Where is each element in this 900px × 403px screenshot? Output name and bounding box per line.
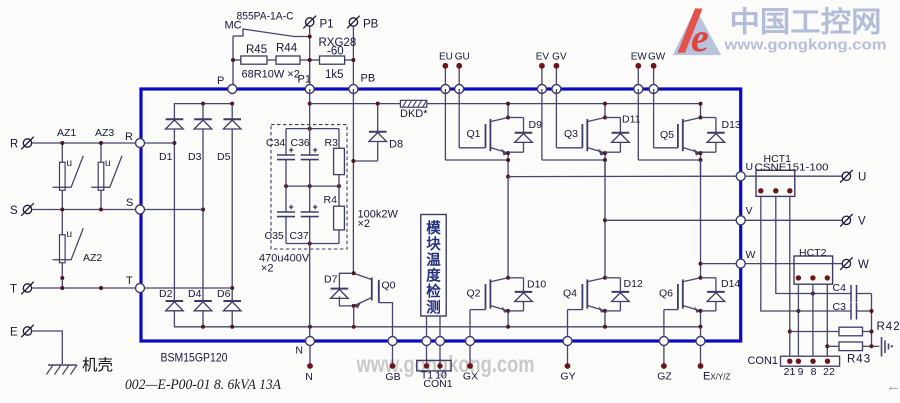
diode D7 (339, 273, 353, 288)
svg-text:Q6: Q6 (659, 288, 673, 300)
svg-text:C35: C35 (265, 230, 284, 242)
svg-text:R42: R42 (877, 321, 900, 333)
svg-text:GB: GB (385, 371, 400, 383)
svg-text:D12: D12 (624, 278, 643, 290)
svg-text:D13: D13 (722, 119, 741, 131)
svg-text:D10: D10 (527, 279, 546, 291)
svg-text:68R10W ×2: 68R10W ×2 (242, 69, 300, 81)
svg-text:C36: C36 (291, 137, 310, 149)
wire DKD to Q1 collector (427, 103, 508, 105)
varistor AZ1 (53, 143, 84, 210)
module temperature sensor box (421, 215, 446, 317)
svg-text:中国工控网: 中国工控网 (730, 7, 882, 39)
current sensor HCT2 (794, 256, 833, 284)
node EV GV on top edge (537, 85, 546, 94)
wire leg1 R phase (173, 129, 175, 301)
transistor Q6 (664, 276, 703, 341)
svg-text:R: R (125, 131, 133, 143)
svg-text:GW: GW (648, 52, 666, 63)
varistor AZ3 (91, 143, 122, 210)
svg-text:GX: GX (463, 371, 478, 383)
svg-text:D5: D5 (217, 151, 231, 163)
capacitor C36 (309, 89, 311, 155)
wire P column (232, 36, 234, 89)
svg-text:+: + (289, 202, 294, 212)
terminal N stub (309, 346, 311, 364)
node EW GW on top edge (634, 85, 643, 94)
terminal GY stub (567, 346, 569, 364)
capacitor C37 (309, 186, 311, 212)
chassis ground (47, 365, 78, 375)
svg-text:CON1: CON1 (423, 378, 452, 390)
svg-text:W: W (746, 249, 756, 261)
diode D4 (194, 301, 212, 311)
svg-text:×2: ×2 (261, 263, 274, 275)
terminal E (21, 325, 34, 338)
svg-text:D7: D7 (324, 274, 338, 286)
diode D3 (194, 119, 212, 129)
wire U bus (508, 175, 741, 177)
capacitor bank dashed box (271, 125, 347, 249)
wire U phase leg (507, 177, 509, 278)
wire PB column inside (352, 89, 354, 273)
svg-text:P1: P1 (298, 74, 311, 86)
wire leg2 S phase (202, 104, 204, 120)
svg-text:HCT2: HCT2 (799, 247, 827, 259)
diode D9 (508, 118, 532, 153)
terminal GX stub (469, 346, 471, 364)
node GZ (659, 337, 668, 346)
svg-text:9: 9 (798, 366, 804, 378)
wire EX emitter to bottom edge (700, 327, 702, 341)
wire T (32, 287, 140, 289)
terminal PB top (347, 16, 360, 29)
transistor Q2 (470, 276, 510, 341)
capacitor C35 (285, 186, 287, 212)
svg-text:Q5: Q5 (660, 129, 674, 141)
svg-text:T: T (10, 284, 17, 296)
svg-text:机壳: 机壳 (82, 356, 113, 374)
terminal GB stub (392, 346, 394, 364)
svg-text:D6: D6 (217, 288, 231, 300)
connector T1 T10 (426, 346, 428, 367)
svg-text:GV: GV (552, 52, 567, 63)
svg-text:D8: D8 (389, 139, 403, 151)
diode D11 (605, 118, 629, 153)
svg-text:V: V (858, 216, 866, 228)
wire caps mid bus (286, 185, 339, 187)
wire W output (741, 263, 843, 265)
transistor Q1 (445, 89, 510, 177)
svg-text:C3: C3 (833, 301, 847, 313)
wire R to leg1 (140, 142, 174, 144)
svg-text:U: U (746, 161, 754, 173)
svg-text:R: R (10, 139, 18, 151)
wire E to chassis (32, 331, 62, 364)
svg-text:温: 温 (426, 252, 441, 269)
logo red slash i (678, 9, 703, 53)
svg-text:N: N (305, 371, 313, 383)
diode D8 (376, 102, 380, 106)
svg-text:AZ1: AZ1 (57, 127, 76, 139)
transistor Q0 brake chopper (352, 271, 379, 309)
transistor Q3 (542, 89, 607, 177)
svg-text:D9: D9 (529, 119, 543, 131)
svg-text:测: 测 (426, 299, 441, 317)
wire N drop from caps (309, 244, 311, 342)
wire collector bus right (508, 103, 700, 105)
terminal V (840, 214, 853, 227)
wire leg3 T phase (231, 104, 233, 120)
svg-text:模: 模 (426, 219, 441, 237)
svg-text:EW: EW (631, 52, 648, 63)
wire V phase leg (604, 160, 606, 278)
wire HCT1 pin2 to C4 (776, 196, 851, 293)
node T1 (422, 337, 431, 346)
svg-text:C4: C4 (833, 282, 847, 294)
svg-text:www.gongkong.com: www.gongkong.com (723, 37, 886, 54)
wire HCT2 pin3 to CON1 pin22 (826, 284, 828, 356)
rectifier top bus (174, 104, 232, 120)
svg-text:C34: C34 (266, 137, 285, 149)
svg-text:AZ2: AZ2 (83, 252, 102, 264)
svg-text:D14: D14 (721, 278, 740, 290)
wire V output (741, 219, 843, 221)
svg-text:8: 8 (811, 366, 817, 378)
svg-text:MC: MC (225, 20, 242, 32)
wire HCT2 pin1 to CON1 pin9 (797, 284, 799, 356)
terminal T (21, 282, 34, 295)
svg-text:PB: PB (363, 19, 379, 31)
svg-text:C37: C37 (290, 230, 309, 242)
current sensor HCT1 (756, 170, 795, 196)
svg-text:e: e (691, 15, 709, 60)
terminal U (840, 170, 853, 183)
diode D12 (605, 278, 629, 311)
junction dots soft start (308, 35, 312, 39)
svg-text:21: 21 (784, 366, 796, 378)
transistor Q5 (638, 89, 702, 177)
wire R (32, 142, 140, 144)
wire PB column (352, 27, 354, 90)
wire sensor lead T1 (426, 316, 428, 341)
ground (872, 345, 880, 347)
resistor R43 (827, 345, 839, 347)
wire S (32, 209, 140, 211)
svg-text:+: + (313, 145, 318, 155)
wire W bus (701, 263, 741, 265)
wire HCT2 pin2 to CON1 pin8 (812, 284, 814, 356)
varistor AZ2 (53, 210, 84, 289)
svg-text:Q2: Q2 (467, 288, 481, 300)
svg-text:AZ3: AZ3 (95, 127, 114, 139)
wire P1 column (309, 27, 311, 90)
svg-text:002—E-P00-01 8. 6kVA 13A: 002—E-P00-01 8. 6kVA 13A (125, 377, 282, 393)
svg-text:Q4: Q4 (563, 288, 577, 300)
svg-text:E: E (10, 327, 18, 339)
diode D13 (701, 118, 725, 153)
svg-text:块: 块 (426, 236, 441, 253)
svg-text:R44: R44 (276, 43, 298, 55)
svg-text:×2: ×2 (358, 218, 371, 230)
svg-text:CSNE151-100: CSNE151-100 (755, 162, 829, 174)
wire HCT1 pin1 to C3 (761, 196, 851, 311)
connector CON1 right (781, 356, 840, 366)
svg-text:Q3: Q3 (564, 128, 578, 140)
wire V bus (605, 219, 741, 221)
svg-text:R45: R45 (246, 44, 267, 56)
svg-text:←: ← (886, 378, 900, 395)
wire T to leg3 (140, 287, 232, 289)
svg-text:u: u (67, 229, 73, 240)
node EX/Y/Z (696, 337, 705, 346)
svg-text:EX/Y/Z: EX/Y/Z (703, 371, 730, 383)
diode D2 (166, 301, 184, 311)
terminal S (21, 203, 34, 216)
svg-text:R43: R43 (847, 354, 871, 366)
diode D6 (223, 301, 241, 311)
svg-text:Q0: Q0 (382, 280, 396, 292)
svg-text:V: V (746, 205, 753, 217)
capacitor C4 (851, 285, 857, 302)
svg-text:u: u (105, 158, 111, 169)
svg-text:D2: D2 (159, 288, 173, 300)
logo triangle (673, 8, 721, 55)
terminal GZ stub (663, 346, 665, 364)
svg-text:Q1: Q1 (467, 128, 481, 140)
terminal P1 top (303, 16, 316, 29)
svg-text:EU: EU (439, 52, 453, 63)
node T10 (436, 337, 445, 346)
node GX (466, 337, 475, 346)
svg-text:P: P (217, 75, 224, 87)
svg-text:S: S (10, 205, 18, 217)
terminal EX/Y/Z stub (700, 346, 702, 364)
svg-text:CON1: CON1 (747, 355, 778, 367)
svg-text:GY: GY (560, 371, 575, 383)
svg-text:W: W (858, 259, 869, 271)
wire Q0 emitter to N bus (353, 306, 355, 327)
svg-text:D1: D1 (159, 151, 173, 163)
svg-text:22: 22 (823, 366, 835, 378)
diode D10 (508, 278, 532, 311)
wire P1 to collector bus (310, 103, 401, 105)
svg-text:DKD*: DKD* (400, 108, 428, 120)
svg-text:1k5: 1k5 (325, 69, 344, 81)
svg-text:855PA-1A-C: 855PA-1A-C (237, 11, 294, 23)
wire ground bus (871, 294, 873, 347)
wire N bus (174, 311, 700, 327)
svg-text:度: 度 (426, 267, 441, 285)
junction dots R S T wires (60, 141, 64, 145)
diode D14 (701, 278, 725, 311)
svg-text:U: U (858, 172, 866, 184)
terminal R (21, 137, 34, 150)
svg-text:D4: D4 (188, 288, 202, 300)
svg-text:PB: PB (361, 73, 376, 85)
wire HCT1 pin3 to CON1 pin21 (789, 196, 791, 356)
capacitor C34 (285, 129, 287, 155)
wire caps bottom bus (286, 243, 339, 245)
module outline BSM15GP120 (blue box) (141, 89, 741, 341)
diode D1 (166, 119, 184, 129)
svg-text:GZ: GZ (657, 371, 672, 383)
resistor R3 (338, 129, 340, 149)
terminal W (840, 257, 853, 270)
diode D5 (223, 119, 241, 129)
node EU GU on top edge (441, 85, 450, 94)
svg-text:GU: GU (455, 52, 470, 63)
svg-text:N: N (295, 345, 303, 357)
svg-text:EV: EV (536, 52, 550, 63)
svg-text:+: + (313, 202, 318, 212)
svg-text:R4: R4 (324, 194, 338, 206)
resistor R42 (790, 331, 839, 333)
svg-text:检: 检 (426, 283, 441, 301)
svg-text:u: u (67, 158, 73, 169)
transistor Q4 (568, 276, 608, 341)
svg-text:BSM15GP120: BSM15GP120 (161, 351, 228, 365)
wire U output (741, 175, 843, 177)
node GY (563, 337, 572, 346)
wire S to leg2 (140, 209, 203, 211)
svg-text:R3: R3 (325, 137, 339, 149)
wire Q0 gate to GB (379, 303, 393, 341)
wire caps top bus (286, 128, 339, 130)
svg-text:D3: D3 (188, 151, 202, 163)
node GB (388, 337, 397, 346)
svg-text:P1: P1 (320, 19, 334, 31)
resistor R4 (338, 186, 340, 206)
wire W phase leg (700, 160, 702, 278)
wire sensor lead T10 (439, 316, 441, 341)
svg-text:S: S (126, 197, 133, 209)
svg-text:T: T (126, 275, 133, 287)
fuse DKD* (400, 100, 426, 107)
capacitor C3 (851, 303, 857, 320)
